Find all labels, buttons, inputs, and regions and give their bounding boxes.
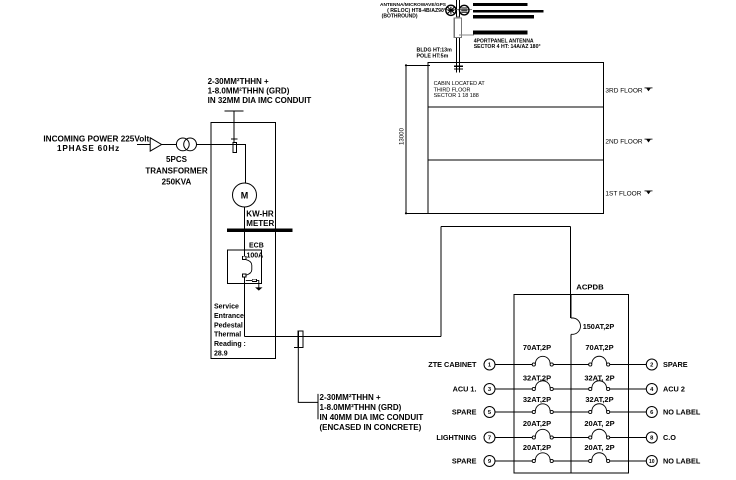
svg-text:10: 10: [649, 459, 655, 465]
wire: [610, 460, 647, 462]
wire leader (gray): [440, 9, 472, 11]
floor line 2nd/1st: [428, 159, 604, 161]
wire across below building: [441, 226, 571, 228]
pole base hash: [454, 66, 463, 69]
svg-text:M: M: [241, 191, 249, 201]
fuse cutout: [233, 143, 237, 153]
wire: [610, 388, 647, 390]
breaker ECB label: [247, 243, 264, 260]
node BLDG/POLE height label: [417, 47, 453, 59]
wire: [495, 437, 532, 439]
svg-text:1PHASE 60Hz: 1PHASE 60Hz: [57, 144, 120, 153]
redaction bar 1: [473, 3, 527, 6]
wire: [553, 411, 588, 413]
breaker ECB contact bottom: [242, 274, 246, 277]
svg-text:SPARE: SPARE: [452, 408, 477, 417]
svg-text:Thermal: Thermal: [214, 332, 241, 339]
svg-text:ACU 2: ACU 2: [663, 385, 685, 394]
svg-text:INCOMING POWER 225Volt,: INCOMING POWER 225Volt,: [43, 135, 151, 144]
svg-text:20AT, 2P: 20AT, 2P: [584, 443, 614, 452]
breaker CB7 20AT,2P: [532, 429, 553, 439]
svg-text:Reading :: Reading :: [214, 341, 246, 348]
wire: [197, 144, 246, 146]
node circuit 2: [646, 359, 657, 370]
conduit label (buried feeder): [320, 393, 424, 432]
svg-text:100A: 100A: [247, 252, 264, 259]
wire riser up: [440, 227, 442, 337]
wire leader (gray): [459, 34, 474, 36]
node panel antenna note: [474, 38, 541, 50]
node circuit 9: [484, 456, 495, 467]
service drop arrow: [150, 138, 161, 151]
svg-text:ZTE CABINET: ZTE CABINET: [428, 360, 477, 369]
svg-text:Entrance: Entrance: [214, 313, 244, 320]
breaker CB3 32AT,2P: [532, 381, 553, 391]
panel divider: [570, 295, 572, 474]
svg-text:POLE HT:5m: POLE HT:5m: [417, 53, 449, 59]
breaker CB10 20AT, 2P: [589, 453, 610, 463]
transformer T1 value label: [145, 155, 207, 187]
svg-text:LIGHTNING: LIGHTNING: [436, 433, 476, 442]
weatherhead terminal: [225, 110, 244, 112]
svg-text:20AT, 2P: 20AT, 2P: [584, 419, 614, 428]
busbar: [227, 228, 293, 232]
svg-text:IN 32MM DIA IMC CONDUIT: IN 32MM DIA IMC CONDUIT: [208, 96, 312, 105]
breaker ECB thermal curve: [246, 260, 252, 276]
node circuit 6: [646, 407, 657, 418]
svg-text:13000: 13000: [399, 127, 406, 145]
ground terminal lug: [252, 279, 256, 281]
wire feeder horizontal: [245, 335, 441, 337]
wire: [553, 388, 588, 390]
wire: [553, 364, 588, 366]
wire: [244, 207, 246, 228]
svg-text:28.9: 28.9: [214, 351, 228, 358]
wire: [162, 144, 177, 146]
breaker CB4 32AT, 2P: [589, 381, 610, 391]
node circuit 5: [484, 407, 495, 418]
breaker CB5 32AT,2P: [532, 404, 553, 414]
svg-text:SPARE: SPARE: [663, 360, 688, 369]
svg-text:TRANSFORMER: TRANSFORMER: [145, 167, 207, 176]
svg-text:NO LABEL: NO LABEL: [663, 457, 701, 466]
pedestal enclosure box: [211, 123, 276, 359]
svg-text:1-8.0MM²THHN (GRD): 1-8.0MM²THHN (GRD): [208, 86, 290, 95]
svg-text:Pedestal: Pedestal: [214, 322, 243, 329]
svg-text:SECTOR 4 HT: 14A/AZ 180°: SECTOR 4 HT: 14A/AZ 180°: [474, 44, 541, 50]
svg-text:3RD FLOOR: 3RD FLOOR: [605, 88, 643, 95]
breaker CB9 20AT,2P: [532, 453, 553, 463]
disconnect tick: [231, 138, 238, 140]
breaker ECB 100A box: [228, 250, 262, 283]
wire: [244, 232, 246, 256]
node cabin location note: [434, 81, 486, 99]
node circuit 10: [646, 456, 657, 467]
breaker ECB contact top: [242, 256, 246, 259]
conduit sleeve: [298, 331, 303, 348]
wire: [137, 144, 150, 146]
panel ACPDB box: [514, 295, 628, 474]
building outline: [428, 62, 604, 213]
wire: [495, 411, 532, 413]
wire to ground: [246, 280, 259, 287]
panel antenna body: [454, 18, 461, 38]
wire riser: [233, 111, 235, 143]
svg-text:5PCS: 5PCS: [166, 155, 188, 164]
node circuit 4: [646, 384, 657, 395]
svg-text:70AT,2P: 70AT,2P: [523, 343, 551, 352]
svg-text:32AT,2P: 32AT,2P: [523, 395, 551, 404]
wire: [553, 460, 588, 462]
svg-text:7: 7: [488, 436, 491, 442]
svg-text:2ND FLOOR: 2ND FLOOR: [605, 139, 643, 146]
wire: [244, 145, 246, 184]
svg-text:150AT,2P: 150AT,2P: [583, 322, 615, 331]
svg-text:70AT,2P: 70AT,2P: [585, 343, 613, 352]
transformer T1: [176, 138, 196, 151]
antenna pole: [457, 0, 460, 73]
svg-text:20AT,2P: 20AT,2P: [523, 419, 551, 428]
wire: [244, 277, 246, 336]
microwave dish antenna left: [446, 5, 456, 15]
wire down to panel: [570, 227, 572, 318]
node antenna note (left): [380, 2, 447, 20]
node circuit 3: [484, 384, 495, 395]
tick: [294, 346, 299, 348]
svg-text:(BOTHROUND): (BOTHROUND): [382, 13, 418, 19]
svg-text:250KVA: 250KVA: [162, 178, 192, 187]
svg-text:(ENCASED IN CONCRETE): (ENCASED IN CONCRETE): [320, 423, 422, 432]
svg-text:ECB: ECB: [249, 243, 264, 250]
wire: [610, 437, 647, 439]
node circuit 8: [646, 432, 657, 443]
redaction bar 3: [473, 15, 534, 18]
node pedestal reading label: [214, 304, 246, 358]
svg-text:ACU 1.: ACU 1.: [453, 385, 477, 394]
svg-text:Service: Service: [214, 304, 239, 311]
svg-text:SPARE: SPARE: [452, 457, 477, 466]
breaker CB1 70AT,2P: [532, 356, 553, 366]
svg-text:NO LABEL: NO LABEL: [663, 408, 701, 417]
breaker CB2 70AT,2P: [589, 356, 610, 366]
svg-text:C.O: C.O: [663, 433, 676, 442]
ground: [255, 287, 262, 290]
node 1ST FLOOR label: [605, 191, 652, 198]
svg-text:32AT,2P: 32AT,2P: [585, 395, 613, 404]
wire: [553, 437, 588, 439]
dimension line 13000: [399, 64, 431, 214]
microwave dish antenna right: [459, 5, 469, 15]
svg-text:IN 40MM DIA IMC CONDUIT: IN 40MM DIA IMC CONDUIT: [320, 413, 424, 422]
node circuit 7: [484, 432, 495, 443]
svg-text:2: 2: [650, 363, 653, 369]
svg-text:ACPDB: ACPDB: [576, 282, 604, 291]
conduit label (service entrance riser): [208, 77, 312, 105]
svg-text:2-30MM²THHN +: 2-30MM²THHN +: [208, 77, 269, 86]
panel antenna cap: [455, 16, 461, 19]
svg-text:SECTOR 1 18 188: SECTOR 1 18 188: [434, 93, 479, 99]
wire: [610, 364, 647, 366]
meter label: [246, 210, 274, 228]
breaker CB8 20AT, 2P: [589, 429, 610, 439]
wire: [610, 411, 647, 413]
meter M (KW-HR): [233, 183, 257, 207]
wire leader to buried conduit label: [298, 348, 318, 420]
node incoming power label: [43, 135, 151, 153]
breaker main 150AT,2P: [571, 318, 581, 334]
floor line 3rd/2nd: [428, 106, 604, 108]
node 2ND FLOOR label: [605, 139, 652, 146]
node circuit 1: [484, 359, 495, 370]
svg-text:1ST FLOOR: 1ST FLOOR: [605, 191, 641, 198]
svg-text:KW-HR: KW-HR: [246, 210, 274, 219]
wire: [495, 460, 532, 462]
redaction bar 4: [473, 30, 527, 34]
svg-text:1-8.0MM²THHN (GRD): 1-8.0MM²THHN (GRD): [320, 403, 402, 412]
svg-text:2-30MM²THHN +: 2-30MM²THHN +: [320, 393, 381, 402]
wire: [495, 364, 532, 366]
svg-text:20AT,2P: 20AT,2P: [523, 443, 551, 452]
node 3RD FLOOR label: [605, 88, 652, 95]
redaction bar 2: [473, 10, 544, 13]
wire: [495, 388, 532, 390]
svg-text:CABIN LOCATED AT: CABIN LOCATED AT: [434, 81, 486, 87]
breaker CB6 32AT,2P: [589, 404, 610, 414]
svg-text:METER: METER: [246, 219, 274, 228]
svg-text:32AT,2P: 32AT,2P: [523, 373, 551, 382]
